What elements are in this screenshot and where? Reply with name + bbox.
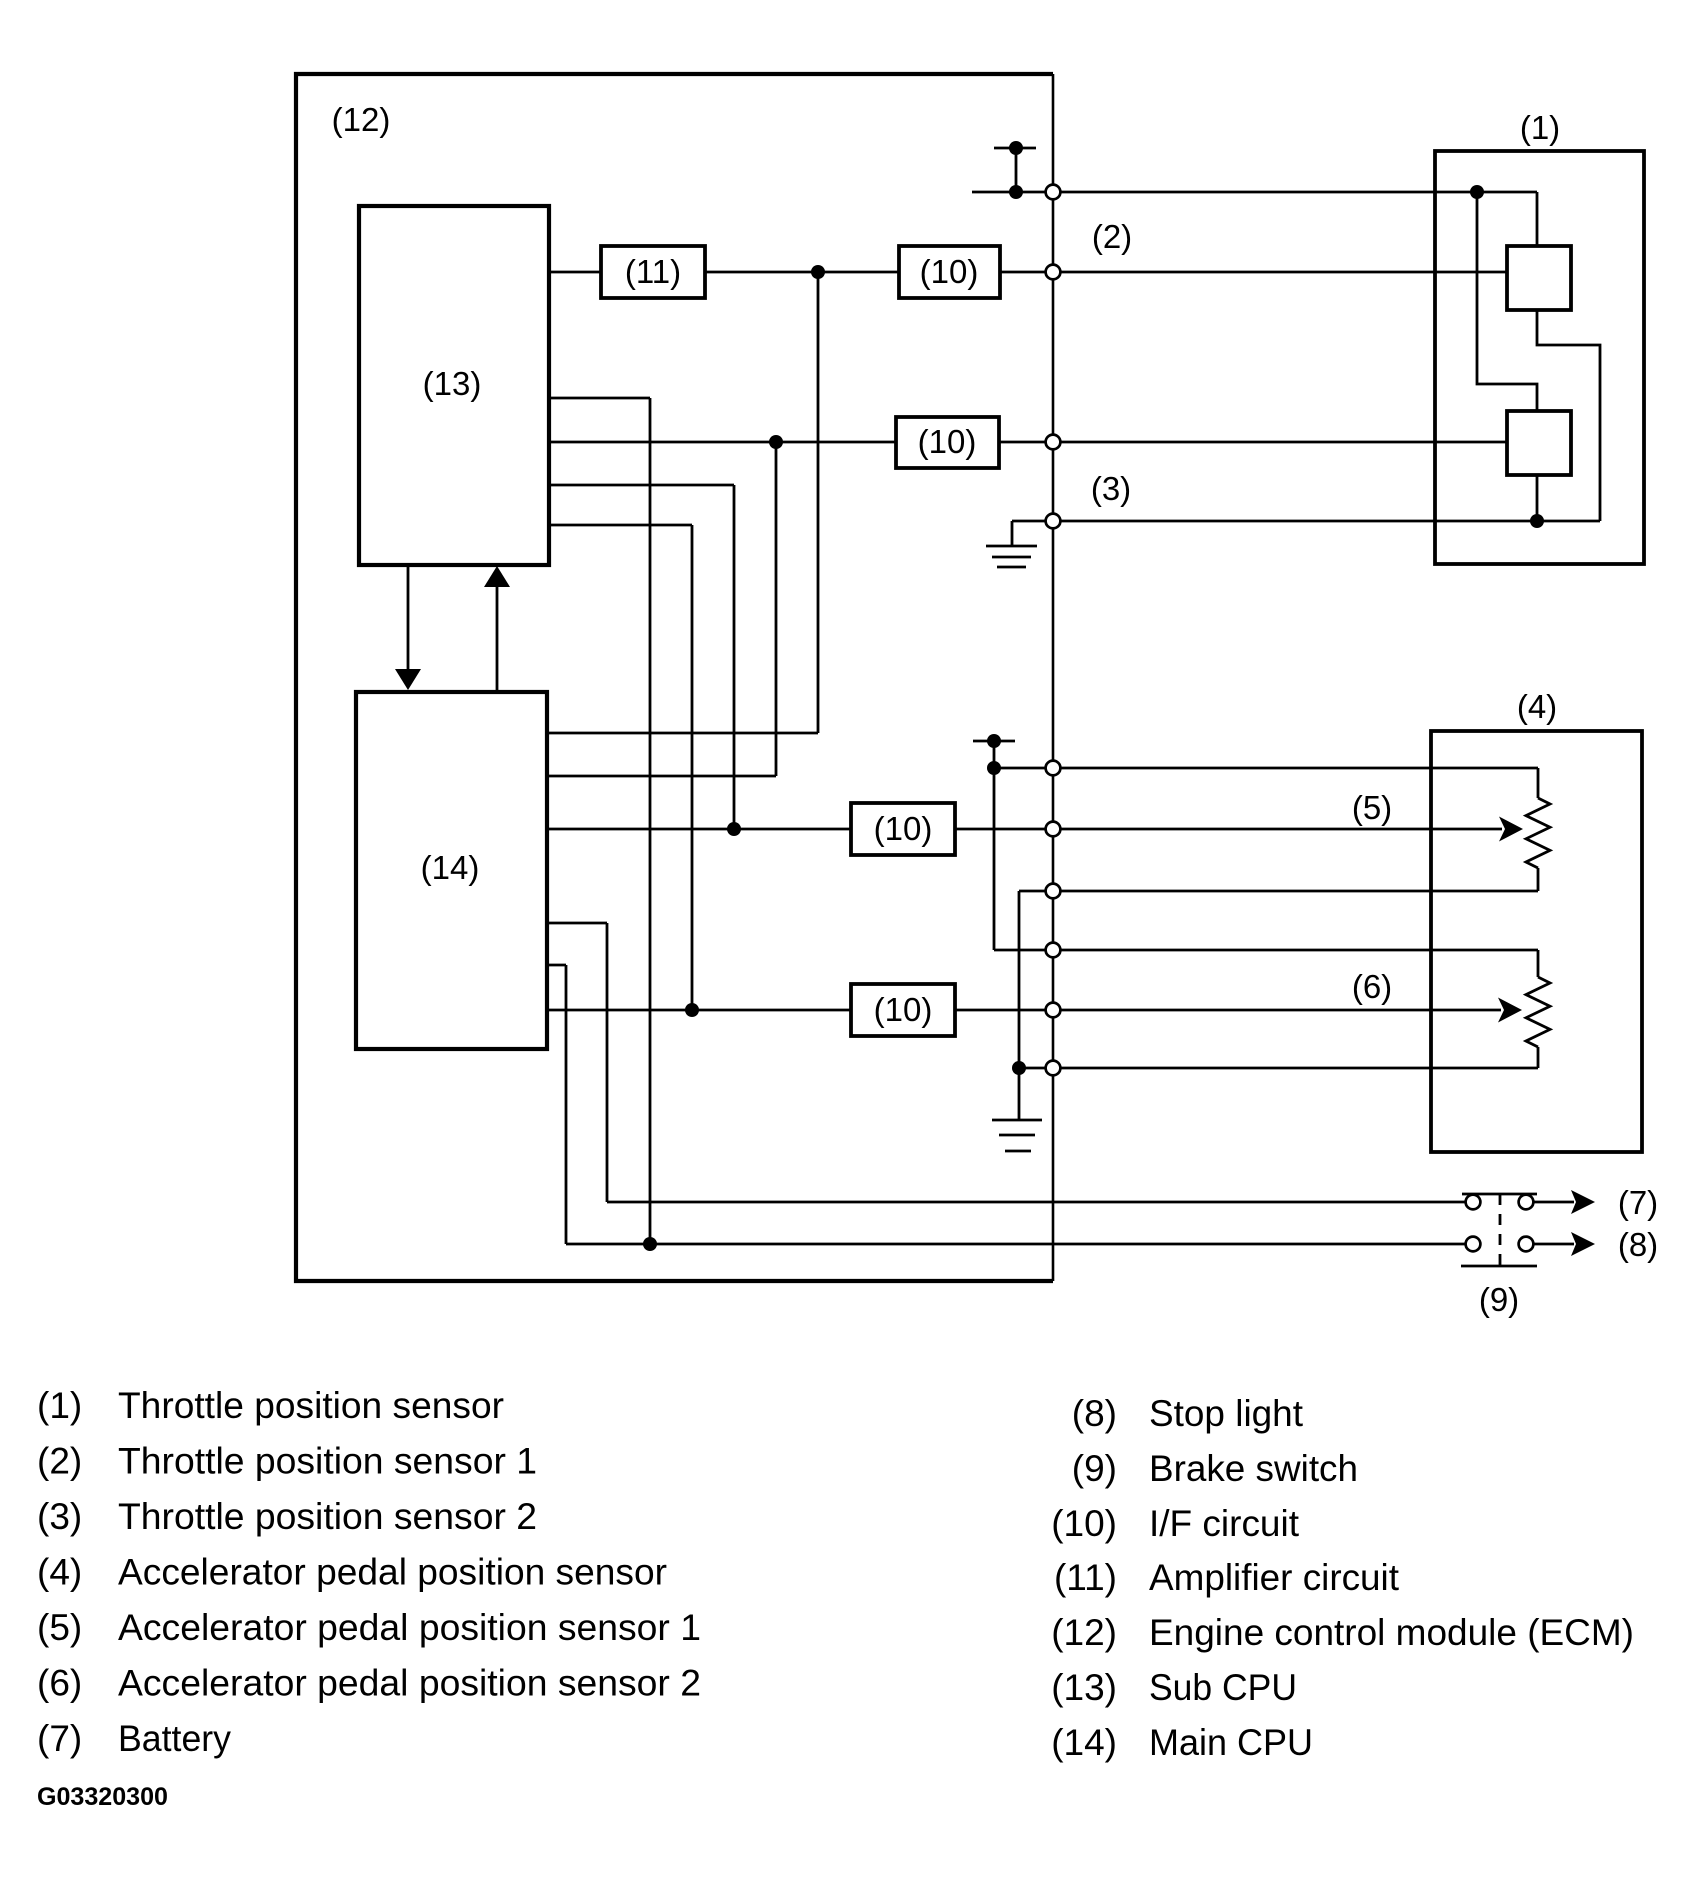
ECM connector pin node 5 (1046, 822, 1061, 837)
wire U13 pin B down to stop light wire (549, 397, 650, 400)
wire sensor element 1 bottom loop (1537, 310, 1600, 521)
supply wire to accel sensor (994, 767, 1538, 770)
svg-text:Accelerator pedal position sen: Accelerator pedal position sensor 2 (118, 1663, 701, 1704)
svg-text:(8): (8) (1072, 1393, 1117, 1434)
arrow U13 to U14 (407, 565, 410, 674)
junction on U13-U10b wire (769, 435, 783, 449)
svg-text:(4): (4) (1517, 688, 1557, 725)
svg-text:(12): (12) (1051, 1612, 1117, 1653)
svg-text:(12): (12) (332, 101, 391, 138)
junction inside throttle sensor (1470, 185, 1484, 199)
power stub lower (973, 740, 1015, 743)
wiper arrow 1 (1499, 817, 1523, 842)
svg-text:I/F circuit: I/F circuit (1149, 1503, 1300, 1544)
wire U10d to accel wiper 2 (955, 1009, 1501, 1012)
svg-text:(3): (3) (37, 1496, 82, 1537)
ECM box U12 (Engine control module) (296, 74, 1053, 1281)
I/F circuit box U10c (851, 803, 955, 855)
svg-text:(6): (6) (1352, 968, 1392, 1005)
junction on accel ground wire (1012, 1061, 1026, 1075)
wire U10a to node 2 and throttle sensor 1 element (1000, 271, 1507, 274)
svg-text:(4): (4) (37, 1552, 82, 1593)
throttle sensor element 1 (1507, 246, 1571, 310)
svg-text:(5): (5) (37, 1607, 82, 1648)
ECM connector pin accel ground 1 (1046, 884, 1061, 899)
ECM connector pin sensor ground (1046, 514, 1061, 529)
supply wire to accel element 2 (994, 949, 1538, 952)
Main CPU box U14 (356, 692, 547, 1049)
throttle position sensor box U1 (1435, 151, 1644, 564)
arrow U14 to U13 (496, 583, 499, 692)
wire U14 to stop light via brake switch (547, 964, 566, 967)
wire accel element 2 bottom (1019, 1067, 1538, 1070)
svg-text:(7): (7) (37, 1718, 82, 1759)
svg-text:(10): (10) (874, 991, 933, 1028)
ground symbol top (986, 545, 1037, 548)
svg-text:(11): (11) (625, 253, 681, 290)
ECM connector pin accel supply 2 (1046, 943, 1061, 958)
junction on accel supply wire (987, 761, 1001, 775)
wire U11 to I/F U10a (705, 271, 899, 274)
ECM connector pin node 2 supply (1046, 185, 1061, 200)
svg-text:(1): (1) (37, 1385, 82, 1426)
wire to stop light arrow (1534, 1243, 1574, 1246)
junction on U14-U10c wire (727, 822, 741, 836)
svg-text:(8): (8) (1618, 1226, 1658, 1263)
ground lead lower (1018, 891, 1021, 1120)
wiper arrow 2 (1498, 998, 1522, 1023)
svg-text:Battery: Battery (118, 1718, 231, 1759)
svg-text:(9): (9) (1479, 1281, 1519, 1318)
svg-text:(9): (9) (1072, 1448, 1117, 1489)
svg-text:(10): (10) (918, 423, 977, 460)
I/F circuit box U10a (899, 246, 1000, 298)
wire U13 to I/F U10b (549, 441, 896, 444)
svg-text:(10): (10) (1051, 1503, 1117, 1544)
power stub top (994, 147, 1036, 150)
potentiometer R1 zigzag (1526, 798, 1550, 868)
svg-text:(1): (1) (1520, 109, 1560, 146)
svg-text:Throttle position sensor 1: Throttle position sensor 1 (118, 1441, 537, 1482)
svg-text:(3): (3) (1091, 470, 1131, 507)
svg-text:(11): (11) (1054, 1557, 1117, 1598)
amplifier circuit box U11 (601, 246, 705, 298)
svg-text:(13): (13) (1051, 1667, 1117, 1708)
svg-text:(13): (13) (423, 365, 482, 402)
brake switch S9 (1462, 1193, 1537, 1196)
svg-text:(2): (2) (1092, 218, 1132, 255)
junction on stop light wire (643, 1237, 657, 1251)
svg-text:Throttle position sensor: Throttle position sensor (118, 1385, 504, 1426)
junction on supply wire (1009, 185, 1023, 199)
wire junction down to sensor element 2 (1477, 192, 1537, 411)
svg-text:G03320300: G03320300 (37, 1783, 168, 1811)
svg-text:Engine control module (ECM): Engine control module (ECM) (1149, 1612, 1634, 1653)
svg-text:Sub CPU: Sub CPU (1149, 1667, 1297, 1708)
Sub CPU box U13 (359, 206, 549, 565)
svg-text:(10): (10) (920, 253, 979, 290)
ECM connector pin accel ground 2 (1046, 1061, 1061, 1076)
ECM connector pin accel supply 1 (1046, 761, 1061, 776)
wire U13 to amplifier U11 (549, 271, 601, 274)
wire accel element 1 bottom (1019, 890, 1538, 893)
svg-text:(6): (6) (37, 1663, 82, 1704)
ECM connector pin node 3 (1046, 435, 1061, 450)
svg-text:(10): (10) (874, 810, 933, 847)
svg-text:(7): (7) (1618, 1184, 1658, 1221)
wire U14 to node on U13-U10b wire (547, 775, 776, 778)
ground lead (1011, 521, 1014, 546)
I/F circuit box U10d (851, 984, 955, 1036)
wire U10c to accel wiper 1 (955, 828, 1502, 831)
svg-text:(2): (2) (37, 1441, 82, 1482)
ground symbol lower (992, 1119, 1042, 1122)
wire U10b to node 3 and throttle sensor 2 element (999, 441, 1507, 444)
wire U14 to I/F U10c (547, 828, 851, 831)
junction on U14-U10d wire (685, 1003, 699, 1017)
svg-text:Accelerator pedal position sen: Accelerator pedal position sensor 1 (118, 1607, 701, 1648)
svg-text:Throttle position sensor 2: Throttle position sensor 2 (118, 1496, 537, 1537)
junction on U11-U10a wire (811, 265, 825, 279)
wire to battery arrow (1534, 1201, 1574, 1204)
svg-text:Amplifier circuit: Amplifier circuit (1149, 1557, 1400, 1598)
wire U14 to I/F U10d (547, 1009, 851, 1012)
ECM connector pin node 2 (1046, 265, 1061, 280)
svg-text:(14): (14) (1051, 1722, 1117, 1763)
wire down to sensor element 1 (1536, 192, 1539, 246)
sensor ground wire row (1012, 520, 1600, 523)
svg-text:Brake switch: Brake switch (1149, 1448, 1358, 1489)
svg-text:(14): (14) (421, 849, 480, 886)
potentiometer R2 zigzag (1526, 977, 1550, 1047)
ECM connector bus line (1052, 74, 1055, 1281)
wire sensor element 2 bottom (1536, 475, 1539, 521)
I/F circuit box U10b (896, 417, 999, 468)
supply wire to throttle position sensor (972, 191, 1537, 194)
svg-text:Accelerator pedal position sen: Accelerator pedal position sensor (118, 1552, 667, 1593)
wire U14 to node on U11-U10a wire (547, 732, 818, 735)
throttle sensor element 2 (1507, 411, 1571, 475)
accelerator pedal position sensor box U4 (1431, 731, 1642, 1152)
junction at sensor element 2 bottom (1530, 514, 1544, 528)
ECM connector pin node 6 (1046, 1003, 1061, 1018)
wire U14 to battery via brake switch (547, 922, 607, 925)
wire U13 pin E down to U10d wire (549, 524, 692, 527)
svg-text:(5): (5) (1352, 789, 1392, 826)
svg-text:Main CPU: Main CPU (1149, 1722, 1313, 1763)
svg-text:Stop light: Stop light (1149, 1393, 1304, 1434)
wire U13 pin D down to U10c wire (549, 484, 734, 487)
